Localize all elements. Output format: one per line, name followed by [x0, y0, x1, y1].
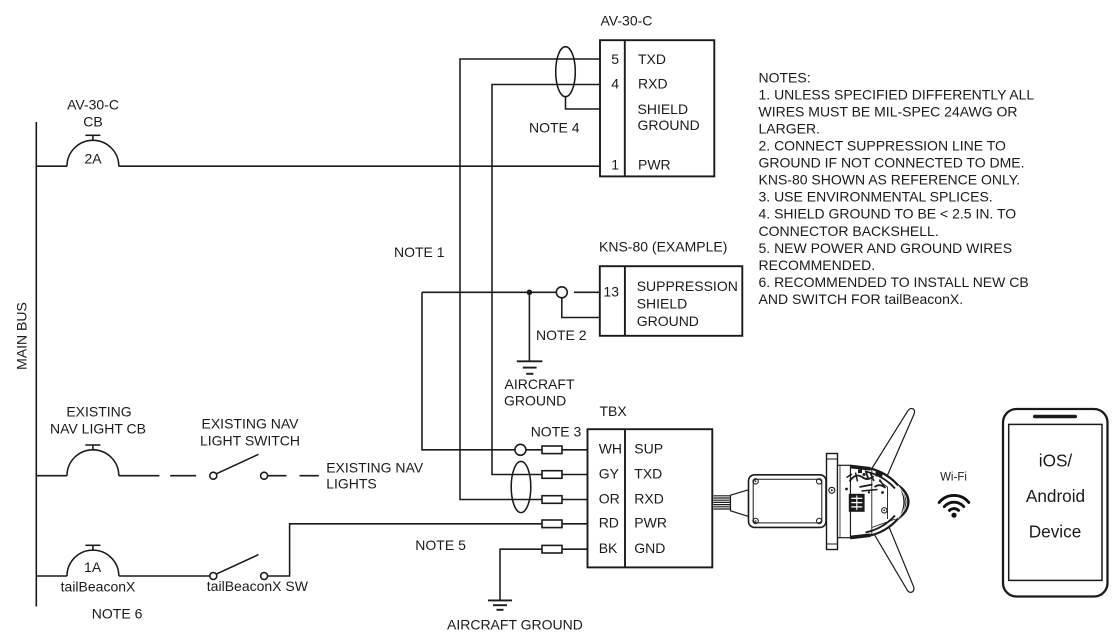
junction dot — [527, 290, 533, 296]
switch EXISTING NAV LIGHT SWITCH — [210, 472, 217, 479]
svg-text:AIRCRAFT GROUND: AIRCRAFT GROUND — [447, 617, 583, 633]
svg-text:SHIELD: SHIELD — [637, 296, 688, 312]
svg-text:AV-30-C: AV-30-C — [67, 97, 119, 113]
svg-text:SUPPRESSION: SUPPRESSION — [637, 278, 738, 294]
svg-text:2A: 2A — [84, 150, 102, 166]
svg-text:NAV LIGHT CB: NAV LIGHT CB — [50, 421, 146, 437]
svg-text:4. SHIELD GROUND TO BE < 2.5 I: 4. SHIELD GROUND TO BE < 2.5 IN. TO — [759, 206, 1017, 222]
svg-text:TXD: TXD — [634, 465, 662, 481]
switch tailBeaconX SW — [210, 573, 217, 580]
main bus — [35, 122, 37, 607]
svg-text:PWR: PWR — [634, 515, 667, 531]
svg-text:Wi-Fi: Wi-Fi — [940, 472, 967, 484]
wire nav cb to switch (partially dashed existing wiring) — [119, 475, 160, 477]
Wi-Fi symbol — [939, 495, 969, 510]
svg-text:Device: Device — [1029, 522, 1082, 542]
wire AV-30 RXD pin4 to TBX TXD (vertical at x492) — [492, 85, 600, 475]
wire TBX BK/GND to aircraft ground — [562, 548, 588, 550]
svg-text:SHIELD: SHIELD — [638, 101, 689, 117]
body housing — [749, 475, 827, 528]
svg-text:RECOMMENDED.: RECOMMENDED. — [759, 257, 876, 273]
svg-text:NOTE 3: NOTE 3 — [531, 424, 582, 440]
flange — [827, 454, 838, 550]
svg-text:6. RECOMMENDED TO INSTALL NEW: 6. RECOMMENDED TO INSTALL NEW CB — [759, 274, 1029, 290]
svg-text:AIRCRAFT: AIRCRAFT — [505, 376, 575, 392]
breaker CB3 tailBeaconX 1A — [36, 575, 67, 577]
svg-text:5. NEW POWER AND GROUND WIRES: 5. NEW POWER AND GROUND WIRES — [759, 240, 1013, 256]
splice S2 (GY) — [542, 471, 562, 479]
cable bundle from TBX — [714, 495, 731, 497]
wire AV-30 shield ground stub — [566, 97, 601, 109]
wire from circle down into KNS-80 shield — [562, 298, 600, 318]
notes text block — [759, 69, 1035, 307]
splice S3 (OR) — [542, 496, 562, 504]
cone body — [851, 466, 906, 538]
wire PWR from CB1 to AV-30-C pin 1 — [36, 165, 67, 167]
svg-text:GROUND: GROUND — [504, 393, 566, 409]
internal wiring cluster — [850, 471, 886, 489]
svg-text:BK: BK — [599, 540, 618, 556]
screw bottom-right — [817, 518, 822, 523]
svg-text:LARGER.: LARGER. — [759, 121, 820, 137]
svg-text:NOTE 4: NOTE 4 — [529, 119, 580, 135]
svg-text:RXD: RXD — [634, 490, 664, 506]
svg-text:tailBeaconX: tailBeaconX — [61, 579, 136, 595]
svg-text:KNS-80 (EXAMPLE): KNS-80 (EXAMPLE) — [599, 239, 727, 255]
svg-text:TBX: TBX — [600, 403, 628, 419]
svg-text:GND: GND — [634, 540, 665, 556]
splice S1 (WH) — [542, 446, 562, 454]
wire KNS-80 pin13 stub — [574, 291, 600, 293]
svg-text:WH: WH — [599, 441, 622, 457]
box TBX — [588, 429, 713, 567]
screw top-left — [753, 479, 758, 484]
svg-text:3. USE ENVIRONMENTAL SPLICES.: 3. USE ENVIRONMENTAL SPLICES. — [759, 189, 993, 205]
svg-text:CONNECTOR BACKSHELL.: CONNECTOR BACKSHELL. — [759, 223, 939, 239]
ground symbol (upper) — [517, 360, 543, 362]
splice connector open circle on SUP wire — [515, 444, 526, 455]
splice S4 (RD) — [542, 520, 562, 528]
svg-text:TXD: TXD — [638, 51, 666, 67]
svg-text:GROUND: GROUND — [637, 313, 699, 329]
cone screw — [882, 508, 887, 513]
svg-text:AND SWITCH FOR tailBeaconX.: AND SWITCH FOR tailBeaconX. — [759, 291, 964, 307]
cone top cap bar — [851, 465, 871, 471]
svg-text:NOTE 6: NOTE 6 — [92, 606, 143, 622]
svg-text:1A: 1A — [84, 559, 102, 575]
svg-text:iOS/: iOS/ — [1039, 451, 1073, 471]
face plate lines — [871, 470, 873, 535]
svg-text:LIGHT SWITCH: LIGHT SWITCH — [200, 433, 300, 449]
internal connector block — [849, 494, 865, 512]
svg-text:EXISTING NAV: EXISTING NAV — [326, 460, 424, 476]
svg-text:GROUND: GROUND — [638, 117, 700, 133]
screw top-right — [817, 479, 822, 484]
svg-text:4: 4 — [611, 76, 619, 92]
cone bottom band (double line) — [868, 518, 899, 536]
svg-text:PWR: PWR — [638, 157, 671, 173]
wire AV-30 TXD pin5 to TBX RXD (vertical at x460) — [460, 59, 600, 500]
wire suppression line horizontal — [422, 291, 556, 293]
tailBeaconX device drawing — [714, 408, 915, 592]
svg-text:RD: RD — [599, 515, 619, 531]
wire to existing nav lights (dashed) — [268, 475, 287, 477]
shield ellipse at TBX — [511, 461, 531, 512]
cone bottom cap bar — [851, 533, 871, 539]
wire to aircraft ground (KNS area) — [528, 292, 530, 361]
svg-text:RXD: RXD — [638, 76, 668, 92]
flange screw — [829, 487, 835, 493]
svg-text:WIRES MUST BE MIL-SPEC 24AWG O: WIRES MUST BE MIL-SPEC 24AWG OR — [759, 103, 1018, 119]
svg-text:OR: OR — [599, 490, 620, 506]
box AV-30-C — [600, 40, 714, 176]
splice S5 (BK) — [542, 545, 562, 553]
svg-text:5: 5 — [611, 51, 619, 67]
splice connector open circle (suppression) — [556, 287, 567, 298]
shield ellipse at AV-30 — [556, 47, 576, 97]
breaker CB2 EXISTING NAV LIGHT — [36, 475, 67, 477]
ground symbol (lower) — [488, 599, 512, 601]
screw bottom-left — [753, 518, 758, 523]
svg-text:EXISTING: EXISTING — [66, 404, 131, 420]
svg-text:NOTE 1: NOTE 1 — [394, 244, 445, 260]
box KNS-80 — [600, 266, 743, 336]
svg-text:KNS-80 SHOWN AS REFERENCE ONLY: KNS-80 SHOWN AS REFERENCE ONLY. — [759, 172, 1021, 188]
svg-text:NOTE 2: NOTE 2 — [536, 327, 587, 343]
svg-text:NOTES:: NOTES: — [759, 69, 811, 85]
barrel — [838, 465, 851, 537]
svg-text:GY: GY — [599, 465, 620, 481]
svg-text:SUP: SUP — [634, 441, 663, 457]
svg-text:MAIN BUS: MAIN BUS — [14, 302, 30, 370]
svg-text:CB: CB — [83, 114, 102, 130]
svg-text:EXISTING NAV: EXISTING NAV — [202, 416, 300, 432]
svg-text:13: 13 — [603, 284, 619, 300]
svg-text:AV-30-C: AV-30-C — [601, 13, 653, 29]
lens tip crescent — [896, 483, 909, 521]
svg-text:1: 1 — [611, 157, 619, 173]
wire switch to TBX RD/PWR — [268, 524, 542, 576]
phone iOS/Android Device — [1003, 409, 1108, 597]
connector neck — [731, 490, 749, 517]
wire suppression to TBX SUP (vertical at x422) — [422, 292, 515, 450]
lower blade — [871, 522, 914, 593]
svg-text:1. UNLESS SPECIFIED DIFFERENTL: 1. UNLESS SPECIFIED DIFFERENTLY ALL — [759, 86, 1035, 102]
wire cb3 to switch — [119, 575, 210, 577]
svg-text:LIGHTS: LIGHTS — [326, 476, 377, 492]
breaker CB1 AV-30-C CB 2A — [67, 140, 119, 166]
svg-text:GROUND IF NOT CONNECTED TO DME: GROUND IF NOT CONNECTED TO DME. — [759, 155, 1025, 171]
svg-text:Android: Android — [1026, 486, 1085, 506]
cone top band (double line) — [868, 468, 899, 486]
svg-text:tailBeaconX SW: tailBeaconX SW — [207, 578, 309, 594]
upper blade — [870, 408, 915, 479]
svg-text:NOTE 5: NOTE 5 — [415, 537, 466, 553]
svg-text:2. CONNECT SUPPRESSION LINE TO: 2. CONNECT SUPPRESSION LINE TO — [759, 138, 1007, 154]
